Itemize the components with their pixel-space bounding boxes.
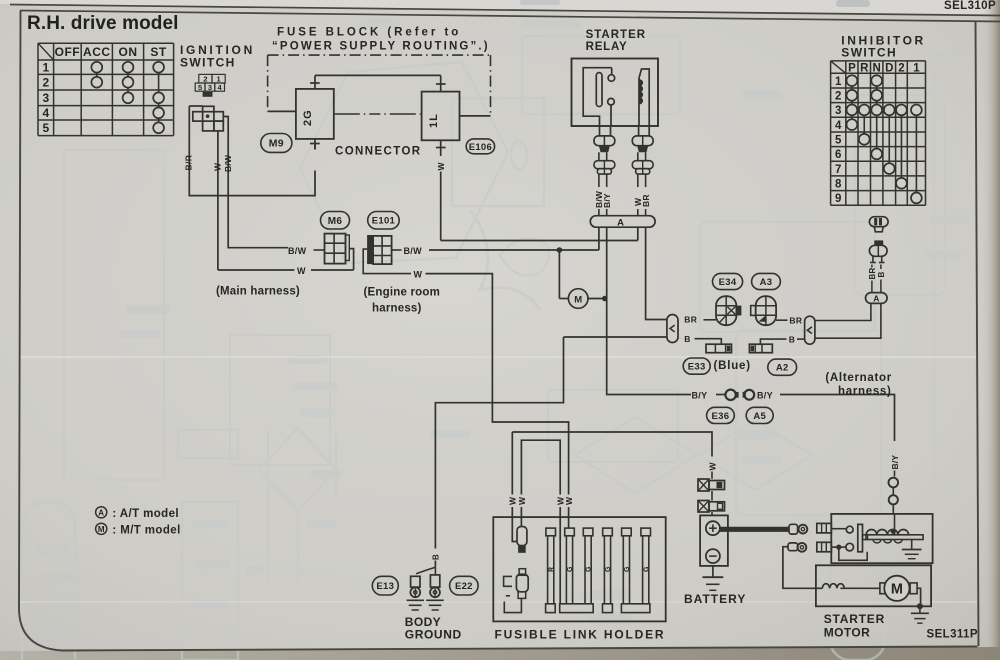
svg-text:1: 1 xyxy=(835,76,842,88)
svg-text:SEL311P: SEL311P xyxy=(927,629,978,641)
svg-text:B: B xyxy=(877,272,886,278)
svg-text:A5: A5 xyxy=(753,411,766,422)
connector A5 oval xyxy=(746,407,773,423)
svg-text:BR: BR xyxy=(641,194,651,207)
wire W ignition to M6 xyxy=(217,131,219,270)
svg-text:8: 8 xyxy=(835,178,842,190)
svg-text:: M/T model: : M/T model xyxy=(112,525,180,537)
svg-text:harness): harness) xyxy=(838,386,892,398)
svg-text:SWITCH: SWITCH xyxy=(180,56,236,70)
wire B/W E101 to relay xyxy=(392,249,402,251)
wire B/R ignition to fuse 2G xyxy=(189,106,315,196)
svg-text:FUSE BLOCK (Refer to: FUSE BLOCK (Refer to xyxy=(277,27,461,39)
svg-text:harness): harness) xyxy=(372,303,422,315)
battery plus terminal xyxy=(706,521,720,535)
wire B jog to connector1 xyxy=(678,338,682,340)
connector A3 symbol xyxy=(751,296,776,325)
wire BR from A3 xyxy=(776,319,787,321)
ground symbol left xyxy=(407,599,424,601)
wire B resume to split xyxy=(434,561,436,568)
solenoid terminal upper xyxy=(846,526,853,533)
wire B from arrow pill to ground drop xyxy=(435,337,563,549)
svg-text:7: 7 xyxy=(835,164,841,176)
cable connector (B+) xyxy=(789,524,798,534)
solenoid terminal lower xyxy=(846,543,854,551)
solenoid coil xyxy=(866,530,923,543)
svg-text:W: W xyxy=(297,266,306,276)
wire B/W into M6 xyxy=(314,249,325,251)
connector E36 oval xyxy=(707,407,735,423)
svg-text:B: B xyxy=(684,334,690,344)
svg-text:G: G xyxy=(643,566,650,572)
svg-text:R: R xyxy=(860,62,869,74)
svg-text:W: W xyxy=(436,162,446,171)
svg-text:W: W xyxy=(517,496,527,505)
wire BR pill-A to arrow pill xyxy=(815,303,871,320)
svg-text:B: B xyxy=(432,554,441,560)
connector E101 oval xyxy=(368,212,400,230)
connector M9 xyxy=(261,134,292,153)
battery box xyxy=(700,515,728,566)
ignition switch connector xyxy=(189,106,223,131)
wire B inhibitor xyxy=(880,265,882,270)
svg-text:2: 2 xyxy=(835,90,841,102)
wire motor to ground xyxy=(917,588,921,606)
svg-text:A2: A2 xyxy=(776,363,789,374)
connector E34 symbol xyxy=(716,296,741,325)
fuse 2G xyxy=(296,89,334,139)
inhibitor switch connector symbol xyxy=(869,217,888,232)
connector E13 oval xyxy=(372,576,398,595)
connector pill A (inhibitor) xyxy=(866,293,888,304)
wire W 1L down xyxy=(440,172,442,241)
wire solenoid internal xyxy=(839,547,867,560)
connector circles B/Y starter xyxy=(889,478,899,488)
wire W2 drop xyxy=(520,507,522,527)
fuse 1L xyxy=(422,92,460,141)
svg-text:M6: M6 xyxy=(328,216,343,227)
svg-text:ON: ON xyxy=(119,45,138,59)
svg-text:A: A xyxy=(617,217,624,228)
svg-text:G: G xyxy=(586,566,593,572)
battery connector W lower xyxy=(698,501,709,513)
solenoid stub lower xyxy=(817,542,832,552)
svg-text:B/Y: B/Y xyxy=(692,390,708,400)
connector M6 oval xyxy=(321,212,350,230)
wire W rail inner xyxy=(521,440,560,494)
svg-text:BATTERY: BATTERY xyxy=(684,592,746,606)
fusible links xyxy=(546,528,651,613)
svg-text:OFF: OFF xyxy=(55,45,81,59)
starter solenoid box xyxy=(831,514,932,563)
svg-text:4: 4 xyxy=(835,120,842,132)
arrow pill left xyxy=(667,315,678,343)
svg-text:R: R xyxy=(548,567,555,572)
svg-text:B/Y: B/Y xyxy=(602,193,612,208)
svg-text:RELAY: RELAY xyxy=(586,41,628,53)
svg-text:(Alternator: (Alternator xyxy=(825,372,891,384)
svg-text:(Blue): (Blue) xyxy=(714,360,751,372)
svg-text:5: 5 xyxy=(835,134,842,146)
svg-text:1: 1 xyxy=(913,62,920,74)
connector A3 oval xyxy=(752,273,781,289)
motor M symbol xyxy=(880,583,886,594)
junction dot solenoid xyxy=(836,545,841,550)
svg-text:E22: E22 xyxy=(455,581,473,592)
wire W relay to 1L xyxy=(637,227,639,240)
svg-text:P: P xyxy=(848,62,856,74)
svg-text:N: N xyxy=(873,62,881,74)
svg-text:9: 9 xyxy=(835,193,841,205)
battery connector W upper xyxy=(698,479,709,491)
motor ground symbol xyxy=(919,606,921,613)
svg-text:2G: 2G xyxy=(302,109,314,126)
svg-text:6: 6 xyxy=(835,149,841,161)
svg-text:D: D xyxy=(885,62,893,74)
svg-text:M: M xyxy=(574,294,582,305)
svg-text:5: 5 xyxy=(198,83,202,92)
wire BR inhibitor xyxy=(871,265,873,268)
battery positive cable (thick) xyxy=(720,527,789,532)
svg-text:B/W: B/W xyxy=(404,246,423,256)
relay contact bracket xyxy=(583,68,612,126)
wire B jog from connector2 xyxy=(760,339,786,344)
arrow pill right xyxy=(805,316,815,344)
wire battery connectors xyxy=(711,491,713,501)
svg-text:A3: A3 xyxy=(760,277,773,288)
junction dot B/W xyxy=(557,247,563,253)
svg-text:2: 2 xyxy=(42,76,49,90)
starter motor box xyxy=(816,565,931,606)
svg-text:1: 1 xyxy=(42,61,49,75)
svg-text:E34: E34 xyxy=(719,277,737,288)
svg-text:M: M xyxy=(891,582,903,598)
lower feed connector xyxy=(788,543,798,551)
svg-text:MOTOR: MOTOR xyxy=(824,626,870,640)
wire M to B/Y junction xyxy=(588,298,605,300)
connector E34 oval xyxy=(713,273,743,289)
wire B/W relay xyxy=(598,174,600,187)
svg-text:B/W: B/W xyxy=(223,154,233,172)
svg-text:3: 3 xyxy=(42,91,49,105)
starter relay box xyxy=(572,59,659,127)
svg-text:B: B xyxy=(789,334,795,344)
wire B/Y relay xyxy=(606,174,608,187)
relay contact terminal upper xyxy=(608,75,615,82)
svg-text:M9: M9 xyxy=(269,138,284,150)
connector pill A (relay) xyxy=(590,216,655,228)
svg-text:STARTER: STARTER xyxy=(824,612,885,626)
svg-text:(Engine room: (Engine room xyxy=(364,287,441,299)
battery ground symbol xyxy=(703,576,724,578)
relay terminal connector right (row1) xyxy=(632,136,653,146)
wire W1 drop xyxy=(511,432,513,495)
svg-text:E36: E36 xyxy=(712,411,730,422)
svg-text:A: A xyxy=(873,294,879,304)
solenoid stub upper xyxy=(817,523,832,533)
wire B/W ignition to M6 xyxy=(223,117,288,248)
svg-text:: A/T model: : A/T model xyxy=(112,508,179,520)
fuse block dashed outline xyxy=(268,55,491,116)
svg-text:GROUND: GROUND xyxy=(405,627,462,641)
svg-text:E33: E33 xyxy=(688,362,706,373)
legend M/T model xyxy=(96,523,107,534)
svg-text:5: 5 xyxy=(42,121,49,135)
wire lower feed to motor box xyxy=(783,547,816,589)
svg-text:G: G xyxy=(567,566,574,572)
battery ground wire xyxy=(712,566,714,577)
svg-text:E101: E101 xyxy=(372,216,396,227)
inhibitor harness connector symbol xyxy=(869,240,887,262)
svg-text:ST: ST xyxy=(150,45,167,59)
svg-text:A: A xyxy=(98,509,104,518)
connector circle pair B/Y xyxy=(725,390,735,400)
fusible link cartridge 2 with bracket xyxy=(504,569,529,613)
fusible link cartridge 1 xyxy=(517,527,527,553)
connector E33 oval xyxy=(683,358,710,374)
ground connector left xyxy=(411,576,420,587)
relay harness connector left (row2) xyxy=(594,161,615,169)
relay contact bar xyxy=(596,73,602,107)
svg-text:E13: E13 xyxy=(376,581,394,592)
wire BR relay xyxy=(645,174,647,187)
wire B split to ground connectors xyxy=(416,567,435,574)
svg-text:1L: 1L xyxy=(428,113,440,128)
ground symbol right xyxy=(426,599,444,601)
ignition switch position table xyxy=(38,43,174,135)
svg-text:R.H. drive model: R.H. drive model xyxy=(27,13,179,34)
junction dot B/Y xyxy=(602,296,608,302)
svg-text:B/R: B/R xyxy=(184,155,194,171)
ground connector right xyxy=(430,575,439,587)
wire B/Y relay to alternator row xyxy=(607,227,691,394)
solenoid ground xyxy=(911,540,913,550)
connector E22 oval xyxy=(450,576,479,595)
wire M/T branch xyxy=(558,250,560,299)
svg-text:2: 2 xyxy=(898,62,904,74)
svg-text:G: G xyxy=(605,566,612,572)
battery minus terminal xyxy=(706,549,720,563)
inline connector (E33 side) xyxy=(706,344,732,353)
relay contact terminal lower xyxy=(608,98,615,105)
wire W rail outer (battery feed) xyxy=(512,432,712,457)
legend A/T model xyxy=(96,507,107,518)
svg-text:B/Y: B/Y xyxy=(757,390,773,400)
svg-text:FUSIBLE LINK HOLDER: FUSIBLE LINK HOLDER xyxy=(495,628,666,642)
svg-text:“POWER SUPPLY ROUTING”.): “POWER SUPPLY ROUTING”.) xyxy=(272,41,490,53)
wire 2G top to 1L top xyxy=(315,74,441,76)
wire W E101 wrap xyxy=(363,249,411,274)
svg-text:3: 3 xyxy=(835,105,841,117)
svg-text:B/W: B/W xyxy=(288,246,307,256)
inline connector (A2 side) xyxy=(749,344,772,353)
svg-text:SWITCH: SWITCH xyxy=(841,46,897,60)
inhibitor switch table xyxy=(831,61,926,205)
relay terminal connector left (row1) xyxy=(594,136,615,146)
svg-text:(Main harness): (Main harness) xyxy=(216,286,300,298)
svg-text:3: 3 xyxy=(208,83,212,92)
wire B/Y to starter solenoid xyxy=(780,395,895,442)
junction dot motor ground xyxy=(917,603,923,609)
ignition switch pin-number grid xyxy=(195,74,225,96)
svg-text:W: W xyxy=(564,496,574,505)
svg-text:W: W xyxy=(212,162,222,171)
svg-text:G: G xyxy=(624,566,631,572)
wire B pill-A to arrow pill xyxy=(815,303,881,338)
svg-text:E106: E106 xyxy=(469,142,492,153)
relay coil xyxy=(639,69,649,126)
wire W3 drop xyxy=(559,507,561,604)
fusible link holder box xyxy=(493,517,665,621)
svg-text:M: M xyxy=(98,525,105,534)
solenoid plunger T xyxy=(858,524,863,551)
svg-text:W: W xyxy=(707,462,717,471)
svg-text:CONNECTOR: CONNECTOR xyxy=(335,146,422,158)
svg-text:STARTER: STARTER xyxy=(586,29,646,41)
motor inductor xyxy=(816,584,880,589)
svg-text:4: 4 xyxy=(42,106,49,120)
wire W4 drop xyxy=(568,435,570,495)
wire W relay xyxy=(637,174,639,187)
svg-text:ACC: ACC xyxy=(83,45,111,59)
svg-text:BR: BR xyxy=(684,315,697,325)
connector E106 xyxy=(466,139,494,154)
connector M6 grid xyxy=(325,234,350,264)
svg-text:BR: BR xyxy=(789,316,802,326)
connector A2 oval xyxy=(768,359,797,375)
wire B/Y into coil xyxy=(894,514,896,535)
wire BR to E34 xyxy=(704,319,717,321)
connector E101 grid xyxy=(367,235,392,264)
svg-text:SEL310P: SEL310P xyxy=(944,0,996,12)
svg-text:BR: BR xyxy=(868,268,877,280)
symbol M (M/T model) xyxy=(568,289,588,309)
svg-text:B/Y: B/Y xyxy=(890,455,900,470)
svg-text:W: W xyxy=(414,270,423,280)
wire BR relay to arrow pill xyxy=(646,227,667,319)
relay harness connector right (row2) xyxy=(632,161,653,169)
